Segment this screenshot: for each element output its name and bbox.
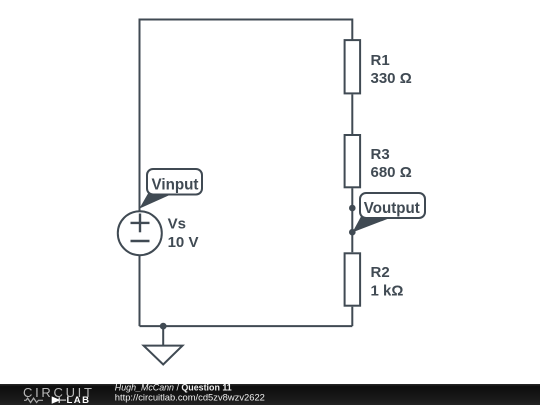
svg-text:680 Ω: 680 Ω (371, 164, 412, 181)
svg-text:10 V: 10 V (168, 234, 199, 251)
svg-text:Voutput: Voutput (364, 200, 421, 217)
svg-text:Vinput: Vinput (152, 177, 200, 194)
svg-text:LAB: LAB (67, 395, 91, 405)
svg-text:R3: R3 (371, 146, 390, 163)
svg-text:Vs: Vs (168, 216, 186, 233)
svg-text:R2: R2 (371, 264, 390, 281)
svg-text:R1: R1 (371, 52, 390, 69)
svg-text:1 kΩ: 1 kΩ (371, 283, 404, 300)
svg-text:http://circuitlab.com/cd5zv8wz: http://circuitlab.com/cd5zv8wzv2622 (115, 391, 265, 402)
svg-text:330 Ω: 330 Ω (371, 70, 412, 87)
